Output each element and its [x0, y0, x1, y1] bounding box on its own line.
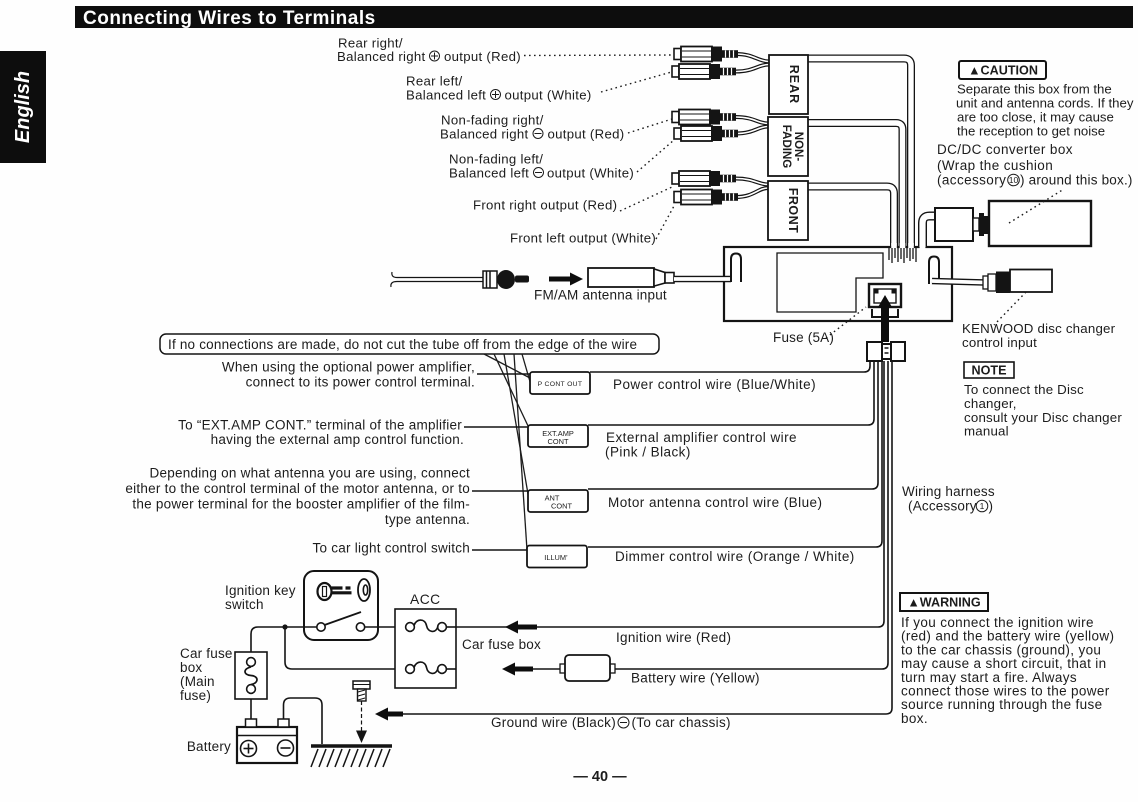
- svg-text:NON-: NON-: [792, 132, 804, 162]
- terminal box ANT CONT: [528, 490, 588, 512]
- svg-text:Battery: Battery: [187, 739, 231, 754]
- svg-text:either to the control terminal: either to the control terminal of the mo…: [125, 481, 470, 496]
- svg-text:(Wrap the cushion: (Wrap the cushion: [937, 158, 1053, 173]
- svg-text:Front right output (Red): Front right output (Red): [473, 198, 617, 213]
- wire: battery to ground: [284, 698, 323, 744]
- keyhole icon: [358, 579, 370, 601]
- plus-circle symbol: [430, 51, 440, 61]
- arrow: battery wire (left): [502, 663, 533, 676]
- svg-text:Power control wire (Blue/White: Power control wire (Blue/White): [613, 377, 816, 392]
- wire fringe entering unit top: [889, 248, 916, 263]
- key icon: [318, 583, 352, 600]
- box REAR: [769, 55, 808, 114]
- svg-text:Balanced left: Balanced left: [449, 166, 529, 181]
- svg-text:Connecting Wires to Terminals: Connecting Wires to Terminals: [83, 8, 376, 29]
- connector line to P CONT OUT: [477, 373, 530, 375]
- svg-text:manual: manual: [964, 424, 1009, 439]
- CAUTION box: [959, 61, 1046, 79]
- svg-text:output (White): output (White): [547, 166, 634, 181]
- battery wire inline connector: [533, 655, 615, 681]
- svg-text:FRONT: FRONT: [786, 188, 800, 234]
- RCA connector C3 non-fading right: [672, 110, 736, 125]
- svg-text:control input: control input: [962, 335, 1037, 350]
- tube: NON-FADING box to harness bundle: [808, 123, 903, 247]
- svg-text:Wiring harness: Wiring harness: [902, 484, 995, 499]
- svg-text:source running through the fus: source running through the fuse: [901, 697, 1102, 712]
- switch contacts: [317, 612, 365, 631]
- main fuse symbol: [245, 658, 257, 694]
- wire: C4 to NON-FADING box: [736, 127, 768, 134]
- disc changer cable out of unit: [932, 281, 985, 283]
- antenna cable into unit: [674, 276, 731, 282]
- fan leader lines from note box: [484, 354, 533, 550]
- svg-text:Depending on what antenna you: Depending on what antenna you are using,…: [150, 466, 470, 481]
- wire: external amplifier control: [588, 361, 874, 425]
- harness wire: battery: [615, 361, 888, 669]
- arrow: ground wire (left): [375, 708, 403, 721]
- svg-text:P CONT OUT: P CONT OUT: [538, 381, 583, 388]
- svg-text:Motor antenna control wire (Bl: Motor antenna control wire (Blue): [608, 495, 822, 510]
- battery minus terminal symbol: [278, 740, 294, 756]
- svg-text:1: 1: [980, 501, 985, 511]
- dotted leader from fuse label: [826, 307, 866, 338]
- svg-text:▲CAUTION: ▲CAUTION: [968, 64, 1038, 78]
- minus-circle symbol: [533, 129, 543, 139]
- svg-text:DC/DC converter box: DC/DC converter box: [937, 142, 1073, 157]
- tube: REAR box to harness bundle: [808, 59, 911, 248]
- wire: junction down to ACC lower fuse: [285, 627, 406, 669]
- svg-text:output (Red): output (Red): [548, 127, 625, 142]
- RCA connector C5 front right: [672, 171, 736, 186]
- harness connector block below unit: [867, 342, 905, 361]
- dotted leader to connector C2: [601, 71, 675, 92]
- svg-text:Ignition wire (Red): Ignition wire (Red): [616, 630, 731, 645]
- svg-text:Ground wire (Black): Ground wire (Black): [491, 715, 616, 730]
- wire: C2 to REAR box: [736, 65, 769, 72]
- dotted leader from disc changer plug: [994, 292, 1026, 325]
- svg-text:Separate this box from the: Separate this box from the: [957, 82, 1112, 97]
- disc changer cable hook inside unit: [929, 257, 939, 285]
- dotted leader to connector C6: [656, 206, 674, 239]
- svg-text:output (Red): output (Red): [444, 49, 521, 64]
- svg-text:Fuse (5A): Fuse (5A): [773, 330, 834, 345]
- svg-text:English: English: [12, 71, 34, 143]
- minus-circle symbol: [534, 168, 544, 178]
- svg-text:unit and antenna cords. If the: unit and antenna cords. If they: [956, 96, 1134, 111]
- svg-text:Non-fading right/: Non-fading right/: [441, 113, 544, 128]
- svg-text:NOTE: NOTE: [972, 364, 1007, 378]
- svg-text:External amplifier control wir: External amplifier control wire: [606, 430, 797, 445]
- svg-text:Ignition key: Ignition key: [225, 583, 296, 598]
- svg-text:Balanced right: Balanced right: [337, 49, 426, 64]
- svg-text:Balanced right: Balanced right: [440, 127, 529, 142]
- tube: unit to DC/DC converter connector: [923, 216, 937, 247]
- RCA connector C2 rear left: [672, 64, 736, 79]
- svg-text:— 40 —: — 40 —: [573, 769, 627, 785]
- antenna cable hook inside unit: [731, 254, 741, 283]
- dotted leader to connector C3: [628, 119, 672, 133]
- svg-text:Front left output (White): Front left output (White): [510, 231, 656, 246]
- svg-text:Car fuse: Car fuse: [180, 646, 233, 661]
- plus-circle symbol: [491, 90, 501, 100]
- screw leader arrow down to ground: [356, 701, 367, 743]
- harness wire: ground: [403, 361, 892, 714]
- wire: C6 to FRONT box: [736, 188, 768, 197]
- header bar: [75, 6, 1133, 28]
- terminal box EXT.AMP CONT: [528, 425, 588, 447]
- RCA connector C6 front left: [674, 190, 738, 205]
- connector line to ANT CONT: [472, 490, 528, 492]
- fuse arrow (up): [878, 295, 893, 342]
- RCA connector C1 rear right: [674, 47, 738, 62]
- svg-text:10: 10: [1009, 175, 1019, 185]
- harness wire: ignition (vertical + horizontal): [446, 361, 884, 627]
- svg-text:If no connections are made, do: If no connections are made, do not cut t…: [168, 337, 637, 352]
- box FRONT: [768, 181, 808, 240]
- svg-text:ACC: ACC: [410, 592, 441, 607]
- svg-text:To car light control switch: To car light control switch: [312, 541, 470, 556]
- svg-text:KENWOOD disc changer: KENWOOD disc changer: [962, 321, 1116, 336]
- svg-text:CONT: CONT: [548, 437, 569, 446]
- svg-text:connect to its power control t: connect to its power control terminal.: [246, 375, 475, 390]
- ignition key switch box: [304, 571, 378, 640]
- battery plus terminal symbol: [241, 741, 257, 757]
- antenna input connector: [588, 268, 674, 287]
- wire stubs inside ACC box: [446, 626, 456, 628]
- disc changer plug rings: [983, 274, 996, 291]
- wire: dimmer control: [588, 361, 882, 547]
- dotted leader to connector C1: [524, 54, 672, 57]
- circled 10 accessory symbol: [1008, 174, 1020, 186]
- arrow: ignition wire (left): [505, 621, 537, 634]
- arrow into antenna input: [549, 273, 583, 286]
- dotted leader to connector C5: [620, 187, 672, 211]
- mounting screw: [353, 681, 370, 701]
- svg-text:having the external amp contro: having the external amp control function…: [211, 432, 464, 447]
- DC/DC plug rings: [973, 213, 989, 236]
- svg-text:(accessory: (accessory: [937, 173, 1006, 188]
- wire: switch to ACC box: [365, 626, 406, 628]
- antenna rod: [391, 272, 483, 287]
- svg-text:(Main: (Main: [180, 674, 215, 689]
- head unit box: [724, 247, 952, 321]
- ACC fuse upper: [406, 620, 447, 631]
- svg-text:changer,: changer,: [964, 396, 1017, 411]
- dotted leader to connector C4: [637, 140, 674, 172]
- circled 1 accessory symbol: [976, 500, 988, 512]
- tube: FRONT box to harness bundle: [808, 187, 894, 248]
- dotted leader into DC/DC box: [1009, 189, 1064, 223]
- svg-text:Rear left/: Rear left/: [406, 74, 463, 89]
- connector line to EXT AMP CONT: [464, 426, 528, 428]
- svg-text:fuse): fuse): [180, 688, 211, 703]
- svg-text:Balanced left: Balanced left: [406, 88, 486, 103]
- svg-text:type antenna.: type antenna.: [385, 512, 470, 527]
- svg-text:ILLUM’: ILLUM’: [544, 553, 568, 562]
- svg-text:Car fuse box: Car fuse box: [462, 637, 541, 652]
- svg-text:Non-fading left/: Non-fading left/: [449, 152, 543, 167]
- wire: fuse box to battery: [250, 699, 252, 719]
- svg-text:): ): [989, 499, 994, 514]
- wire: power control: [590, 361, 870, 372]
- minus-circle chassis symbol: [618, 717, 629, 728]
- DC/DC converter box: [989, 201, 1091, 246]
- svg-text:To connect the Disc: To connect the Disc: [964, 382, 1084, 397]
- WARNING box: [900, 593, 988, 611]
- ground symbol: [311, 746, 392, 767]
- svg-text:When using the optional power: When using the optional power amplifier,: [222, 360, 475, 375]
- antenna plug: [483, 270, 529, 289]
- svg-text:FADING: FADING: [780, 125, 792, 169]
- ACC fuse lower: [406, 662, 447, 673]
- wire: C3 to NON-FADING box: [736, 117, 768, 124]
- RCA connector C4 non-fading left: [674, 126, 738, 141]
- fuse socket on unit: [869, 284, 901, 307]
- svg-text:the reception to get noise: the reception to get noise: [957, 124, 1105, 139]
- svg-text:REAR: REAR: [787, 65, 801, 104]
- battery: [237, 719, 297, 763]
- svg-text:box.: box.: [901, 711, 928, 726]
- svg-text:switch: switch: [225, 597, 264, 612]
- svg-text:the power terminal for the boo: the power terminal for the booster ampli…: [132, 497, 470, 512]
- DC/DC converter connector box: [935, 208, 973, 241]
- terminal box ILLUM: [527, 546, 587, 568]
- car fuse box (main fuse): [235, 652, 267, 699]
- svg-text:▲WARNING: ▲WARNING: [907, 596, 981, 610]
- NOTE box: [964, 362, 1014, 378]
- svg-text:box: box: [180, 660, 202, 675]
- terminal box P CONT OUT: [530, 372, 590, 394]
- KENWOOD disc changer plug: [996, 270, 1052, 294]
- ACC car fuse box: [395, 609, 456, 688]
- svg-text:output (White): output (White): [505, 88, 592, 103]
- tube pass-through gaps in unit top edge: [891, 243, 925, 250]
- note box: do not cut the tube: [160, 334, 659, 354]
- connector line to ILLUM: [472, 549, 528, 551]
- box NON-FADING: [768, 117, 808, 176]
- svg-text:are too close, it may cause: are too close, it may cause: [957, 110, 1114, 125]
- svg-text:(To car chassis): (To car chassis): [632, 715, 731, 730]
- fuse holder bracket below unit: [872, 309, 898, 317]
- svg-text:(Accessory: (Accessory: [908, 499, 977, 514]
- wire: car fuse box to switch: [251, 627, 317, 652]
- wire: C1 to REAR box: [736, 54, 769, 62]
- English side tab: [0, 51, 46, 163]
- head unit inner chassis outline: [777, 253, 883, 312]
- svg-text:Dimmer control wire (Orange /: Dimmer control wire (Orange / White): [615, 549, 855, 564]
- svg-text:FM/AM antenna input: FM/AM antenna input: [534, 288, 667, 303]
- wire: motor antenna control: [588, 361, 878, 489]
- svg-text:CONT: CONT: [551, 502, 572, 511]
- svg-text:To “EXT.AMP CONT.” terminal of: To “EXT.AMP CONT.” terminal of the ampli…: [178, 418, 462, 433]
- junction dot: [282, 624, 287, 629]
- svg-text:(Pink / Black): (Pink / Black): [605, 445, 691, 460]
- wire: C5 to FRONT box: [736, 179, 768, 185]
- svg-text:Battery wire (Yellow): Battery wire (Yellow): [631, 671, 760, 686]
- svg-text:) around this box.): ) around this box.): [1020, 173, 1133, 188]
